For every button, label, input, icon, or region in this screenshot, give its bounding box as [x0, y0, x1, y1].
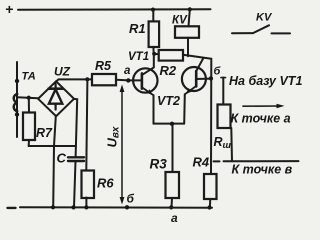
svg-text:C: C	[57, 151, 67, 166]
wire R4 bottom lead	[209, 199, 212, 208]
node junction R6 on minus bus	[84, 205, 88, 209]
relay coil KV	[175, 26, 199, 38]
svg-text:R2: R2	[160, 63, 177, 78]
node junction R7 top	[27, 96, 31, 100]
wire VT2 base lead	[196, 78, 211, 80]
resistor R6	[82, 171, 95, 199]
node junction R3 on minus bus	[169, 205, 173, 209]
relay contact KV	[232, 12, 290, 34]
wire KV coil top lead	[189, 9, 190, 26]
wire dash to node b column	[214, 160, 220, 162]
minus terminal	[8, 207, 16, 209]
node junction R4 on minus bus	[207, 205, 211, 209]
svg-text:а: а	[171, 211, 178, 222]
resistor R5	[92, 74, 116, 85]
wire VT2 collector lead	[196, 58, 203, 71]
svg-text:б: б	[127, 192, 135, 206]
wire VT1 emitter lead	[153, 95, 155, 123]
wire VT2 emitter lead	[183, 94, 186, 123]
svg-text:VT1: VT1	[128, 51, 149, 63]
resistor R2	[159, 50, 183, 61]
svg-text:б: б	[214, 66, 222, 78]
svg-text:R3: R3	[150, 157, 168, 172]
wire VT1 collector lead	[142, 54, 154, 75]
wire KV coil bottom lead	[187, 38, 189, 56]
wire R3 top lead	[172, 124, 174, 172]
annotation k tochke v	[232, 163, 293, 177]
resistor R7	[23, 113, 35, 141]
wire R7 bottom horizontal to C	[29, 145, 76, 147]
rectifier bridge UZ	[38, 65, 74, 117]
wire R2 right to node b corner	[183, 55, 211, 174]
node junction R6 tap	[85, 77, 89, 81]
wire R6 bottom lead	[85, 198, 87, 208]
svg-text:R6: R6	[97, 176, 114, 191]
wire bridge bottom vertex to minus bus	[53, 116, 56, 207]
arrow k tochke a	[231, 104, 291, 126]
resistor R3	[166, 172, 180, 198]
wire R7 bottom lead	[28, 140, 30, 146]
node junction KV coil on bus	[188, 7, 192, 11]
svg-text:R4: R4	[193, 155, 210, 170]
arrow Uvx measurement	[105, 85, 125, 205]
caption a	[171, 211, 178, 225]
svg-text:R1: R1	[129, 21, 146, 36]
wire bridge top vertex to R5	[56, 79, 92, 81]
resistor R4	[204, 174, 217, 199]
wire Rsh top lead	[221, 77, 226, 79]
plus terminal	[5, 1, 13, 17]
resistor R1	[149, 21, 160, 47]
wire R5 to node a	[116, 79, 126, 82]
wire bottom minus bus	[20, 206, 212, 209]
transistor VT1	[128, 51, 158, 95]
wire TA to bridge left vertex	[17, 96, 38, 99]
wire R7 top lead	[28, 98, 30, 113]
svg-text:К точке в: К точке в	[232, 163, 293, 177]
node junction bridge on minus bus	[51, 205, 55, 209]
transistor VT2	[157, 67, 206, 108]
node b junction VT2 base	[209, 76, 213, 80]
TA terminal dot lower	[15, 112, 19, 116]
svg-text:КV: КV	[172, 15, 188, 27]
wire k tochke v	[224, 160, 299, 162]
wire top positive bus	[18, 8, 211, 10]
wire R3 bottom lead	[171, 198, 174, 207]
resistor Rsh	[218, 105, 231, 129]
capacitor C	[57, 151, 85, 166]
current transformer TA primary wire	[16, 62, 18, 137]
wire R6 feed down	[86, 79, 87, 170]
svg-text:a: a	[124, 65, 131, 77]
wire capacitor bottom lead	[74, 161, 76, 207]
svg-text:R5: R5	[95, 59, 112, 73]
TA terminal dot upper	[15, 79, 19, 83]
svg-text:+: +	[5, 1, 13, 17]
node junction R1 on bus	[151, 8, 155, 12]
node b on minus bus	[125, 205, 129, 209]
svg-text:R7: R7	[36, 126, 53, 140]
wire R1 bottom lead	[152, 47, 154, 54]
wire emitter bus	[154, 123, 185, 125]
svg-text:UZ: UZ	[54, 65, 71, 79]
node junction C on minus bus	[71, 205, 75, 209]
svg-text:ТА: ТА	[22, 71, 36, 83]
node junction R1/R2/VT1 collector	[152, 52, 156, 56]
svg-text:На базу VT1: На базу VT1	[229, 74, 302, 88]
node junction R3 on emitter bus	[170, 122, 174, 126]
wire bridge right vertex down to capacitor	[74, 99, 77, 157]
wire VT1 base lead	[131, 79, 142, 81]
wire R1 top lead	[152, 10, 154, 22]
wire Rsh bottom lead	[230, 128, 233, 161]
TA secondary winding arcs	[14, 94, 17, 111]
wire R2 left lead	[154, 53, 159, 55]
svg-text:KV: KV	[256, 12, 273, 24]
annotation na bazu VT1	[229, 74, 302, 88]
node a	[126, 78, 130, 82]
svg-text:К точке а: К точке а	[231, 112, 291, 126]
svg-text:VT2: VT2	[157, 94, 180, 108]
